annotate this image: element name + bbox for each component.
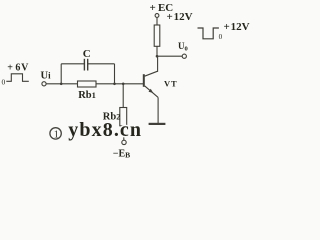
svg-text:+ 12V: + 12V	[167, 11, 193, 23]
svg-text:1: 1	[54, 129, 59, 140]
wire: emitter vertical to ground	[157, 97, 159, 123]
input waveform Ui pulse	[6, 74, 29, 82]
figure number circled 1	[50, 128, 61, 139]
wire: collector node down	[157, 56, 159, 72]
wire: Rb2 branch vertical	[122, 84, 124, 108]
svg-text:−EB: −EB	[113, 149, 130, 160]
terminal -EB	[122, 140, 126, 144]
terminal +EC	[155, 14, 159, 18]
wire: C branch top right	[88, 63, 115, 65]
node: C branch right junction	[113, 83, 116, 86]
terminal U0	[182, 54, 186, 58]
svg-text:Rb1: Rb1	[78, 90, 96, 101]
capacitor C plates	[83, 59, 85, 71]
wire: C branch right vertical	[114, 64, 116, 84]
svg-text:VT: VT	[164, 78, 178, 88]
svg-text:0: 0	[2, 77, 6, 86]
ground	[149, 123, 166, 125]
wire: emitter diagonal	[145, 86, 158, 97]
wire: C branch top left	[61, 63, 84, 65]
svg-text:+ 12V: + 12V	[224, 21, 250, 33]
transistor VT emitter arrow	[149, 89, 154, 93]
node: base line / C branch left junction	[60, 83, 63, 86]
transistor VT base bar	[143, 74, 145, 87]
svg-text:Ui: Ui	[41, 71, 52, 82]
wire: Rc bottom to collector node	[156, 46, 158, 56]
resistor Rb1	[78, 81, 97, 87]
resistor Rc	[154, 25, 160, 46]
svg-text:ybx8.cn: ybx8.cn	[68, 119, 142, 141]
watermark ybx8.cn	[68, 119, 142, 141]
output waveform U0 pulse	[198, 28, 219, 39]
wire: +EC terminal down to Rc	[156, 17, 158, 25]
node: Rb2 junction	[122, 83, 125, 86]
svg-text:+ 6V: + 6V	[7, 62, 29, 73]
resistor Rb2	[120, 108, 127, 126]
wire: below Rb2 to -EB terminal	[123, 126, 125, 140]
wire: C branch left vertical	[60, 64, 62, 84]
svg-text:0: 0	[219, 33, 223, 41]
node: collector junction	[156, 55, 159, 58]
terminal Ui	[42, 82, 46, 86]
svg-text:C: C	[83, 48, 91, 60]
wire: Ui terminal to base node	[46, 83, 143, 85]
wire: collector node to U0 terminal	[157, 55, 182, 57]
wire: collector diagonal to transistor	[145, 71, 158, 76]
